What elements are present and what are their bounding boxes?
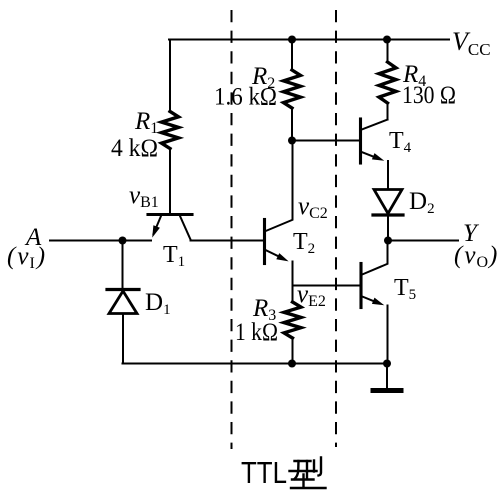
- wire input A: [50, 240, 151, 242]
- wire T5 emitter to bottom rail: [387, 306, 389, 364]
- wire R2 bottom: [291, 108, 293, 141]
- resistor R1: [162, 112, 179, 149]
- wire T2 collector up to vC2 node: [292, 141, 294, 220]
- wire output Y: [388, 240, 458, 242]
- node T5 emitter bottom: [383, 360, 391, 368]
- svg-text:TTL: TTL: [241, 455, 287, 490]
- wire R1 top drop: [169, 40, 171, 112]
- resistor R2: [284, 70, 301, 108]
- node R3 bottom: [288, 360, 296, 368]
- transistor T1: [148, 215, 192, 240]
- wire vC2 to T4 base: [292, 140, 360, 142]
- svg-text:1.6 kΩ: 1.6 kΩ: [214, 84, 277, 111]
- transistor T5: [361, 264, 387, 308]
- wire T4 emitter to D2: [387, 161, 389, 188]
- wire R4 to T4 collector: [387, 103, 389, 120]
- diode D1: [107, 290, 139, 314]
- node R2 top: [288, 36, 296, 44]
- wire T5 collector to Y node: [387, 241, 389, 264]
- svg-text:(vI): (vI): [7, 243, 45, 272]
- wire R3 to bottom rail: [292, 338, 294, 364]
- node output Y: [384, 237, 392, 245]
- wire R1 to T1 base: [169, 149, 171, 214]
- wire D2 to output node: [387, 215, 389, 241]
- wire input node to D1: [122, 241, 124, 289]
- svg-text:1 kΩ: 1 kΩ: [235, 319, 278, 346]
- dashed divider right: [335, 10, 337, 447]
- node input junction: [119, 237, 127, 245]
- wire VCC rail: [169, 39, 449, 41]
- resistor R4: [379, 62, 396, 103]
- wire D1 to bottom rail: [122, 314, 124, 364]
- wire T2 emitter down to R3: [292, 262, 294, 303]
- wire vE2 to T5 base: [293, 285, 361, 287]
- dashed divider left: [231, 10, 233, 449]
- node vC2: [288, 137, 296, 145]
- wire bottom rail: [123, 363, 388, 365]
- wire R4 top drop: [387, 40, 389, 63]
- svg-text:4 kΩ: 4 kΩ: [111, 135, 158, 162]
- diode D2: [373, 190, 403, 216]
- node R4 top: [383, 36, 391, 44]
- resistor R3: [284, 302, 301, 338]
- transistor T4: [361, 119, 388, 163]
- caption glyph 型: [290, 458, 326, 489]
- wire R2 top drop: [291, 40, 293, 71]
- transistor T2: [265, 220, 293, 264]
- wire T1 collector to T2 base: [191, 240, 264, 242]
- ground: [373, 364, 401, 391]
- svg-text:130 Ω: 130 Ω: [402, 82, 456, 109]
